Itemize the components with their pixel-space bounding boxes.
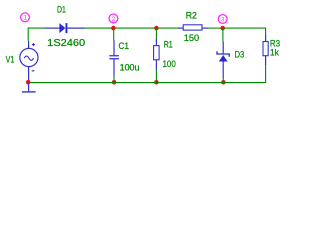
svg-text:150: 150 <box>184 33 199 44</box>
diode D1 <box>45 23 85 33</box>
svg-text:V1: V1 <box>6 54 15 64</box>
svg-text:2: 2 <box>112 16 116 23</box>
junction dot node3/top <box>220 26 225 31</box>
wire top rail middle <box>85 27 181 29</box>
wire top rail right segment to R3 corner <box>223 28 266 35</box>
resistor R2 <box>178 25 208 30</box>
ground <box>22 83 36 92</box>
svg-text:100: 100 <box>163 59 176 70</box>
zener diode D3 <box>217 41 229 78</box>
svg-text:C1: C1 <box>119 41 130 52</box>
svg-text:D1: D1 <box>57 5 66 16</box>
wire R3 bottom to rail corner <box>223 65 265 82</box>
junction dot C1/bottom <box>112 80 117 85</box>
wire V1 top <box>27 39 29 41</box>
wire C1 to bottom rail <box>113 76 115 83</box>
svg-text:3: 3 <box>221 16 225 23</box>
svg-text:R2: R2 <box>186 10 197 21</box>
resistor R3 <box>263 35 268 65</box>
node 2 <box>109 14 118 23</box>
wire D3 to bottom rail <box>222 78 224 83</box>
junction dot D3/bottom <box>221 80 226 85</box>
svg-text:R1: R1 <box>164 40 173 51</box>
wire R1 bottom <box>155 70 157 83</box>
svg-text:1k: 1k <box>270 47 279 58</box>
wire R2 to node3 <box>208 27 223 29</box>
wire node3 down to D3 <box>222 28 224 41</box>
junction dot V1/bottom <box>26 80 31 85</box>
svg-text:1: 1 <box>23 15 27 22</box>
wire R3 top <box>265 34 267 36</box>
junction dot R1/bottom <box>154 80 159 85</box>
voltage source V1 <box>20 41 38 83</box>
node 3 <box>218 15 227 24</box>
svg-text:D3: D3 <box>235 50 245 61</box>
capacitor C1 <box>109 40 119 76</box>
wire node2 down to C1 <box>113 28 115 40</box>
junction dot R1/top <box>154 26 159 31</box>
wire top rail left segment from V1 corner to D1 <box>28 28 45 39</box>
resistor R1 <box>154 39 160 71</box>
bottom rail <box>28 82 223 84</box>
svg-text:100u: 100u <box>120 63 140 74</box>
svg-text:1S2460: 1S2460 <box>47 38 85 49</box>
wire R1 top <box>155 28 157 38</box>
node 1 <box>21 13 30 22</box>
junction dot node2/top <box>111 26 116 31</box>
